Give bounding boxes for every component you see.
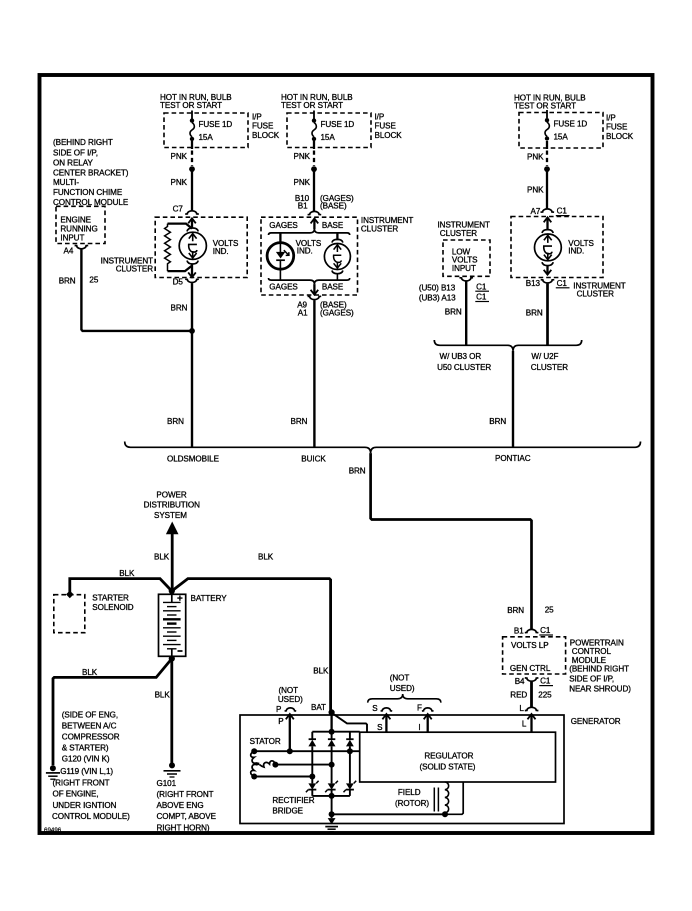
svg-text:C7: C7 xyxy=(173,204,184,213)
svg-text:(RIGHT FRONT: (RIGHT FRONT xyxy=(157,790,214,799)
powertrain control module box xyxy=(503,637,566,674)
svg-text:VOLTS LP: VOLTS LP xyxy=(511,641,549,650)
junction battery negative xyxy=(169,656,175,662)
I/P fuse block box (Oldsmobile) xyxy=(164,113,248,148)
svg-text:S: S xyxy=(372,704,378,713)
connector L (generator) xyxy=(519,704,538,729)
svg-text:FUSE: FUSE xyxy=(375,122,397,131)
svg-text:CENTER BRACKET): CENTER BRACKET) xyxy=(53,169,129,178)
svg-text:BRN: BRN xyxy=(171,303,188,312)
svg-text:CLUSTER: CLUSTER xyxy=(531,363,569,372)
svg-text:B1: B1 xyxy=(298,202,308,211)
wire stator phase 3 xyxy=(254,776,312,778)
chime module box: engine running input xyxy=(56,206,105,243)
svg-text:BLK: BLK xyxy=(155,691,171,700)
svg-text:C1: C1 xyxy=(540,677,551,686)
arrow to power distribution xyxy=(166,522,179,535)
wire PNK (Oldsmobile) xyxy=(191,169,193,211)
svg-text:OF ENGINE,: OF ENGINE, xyxy=(53,790,99,799)
wire to gauges lamp xyxy=(279,233,281,243)
svg-text:(BEHIND RIGHT: (BEHIND RIGHT xyxy=(569,664,629,673)
battery xyxy=(159,591,186,659)
svg-text:BRN: BRN xyxy=(507,606,524,615)
svg-text:BAT: BAT xyxy=(311,703,326,712)
gauge volts indicator (Buick base) xyxy=(324,239,350,280)
stator windings xyxy=(250,737,281,779)
wire stator phase 2 xyxy=(275,764,331,766)
svg-text:BRN: BRN xyxy=(167,417,184,426)
wire BLK battery to PDS xyxy=(171,533,174,591)
svg-text:(BEHIND RIGHT: (BEHIND RIGHT xyxy=(53,138,113,147)
junction ground/field xyxy=(329,811,335,817)
label I/P FUSE BLOCK (Buick) xyxy=(375,113,403,140)
svg-text:I/P: I/P xyxy=(252,113,262,122)
label powertrain control module xyxy=(569,639,631,694)
svg-text:C1: C1 xyxy=(557,279,568,288)
svg-text:(NOT: (NOT xyxy=(390,674,410,683)
svg-text:USED): USED) xyxy=(278,695,303,704)
wire BRN (Oldsmobile) xyxy=(191,283,193,447)
fuse 1D 15A (Buick) xyxy=(312,111,355,142)
instrument cluster box (Pontiac) xyxy=(511,217,603,278)
wire BLK battery to generator BAT xyxy=(172,579,331,713)
label ground G113/G120 xyxy=(52,711,130,821)
svg-text:BLOCK: BLOCK xyxy=(252,131,280,140)
svg-text:(U50) B13: (U50) B13 xyxy=(419,283,456,292)
rectifier bridge top rail xyxy=(312,731,359,733)
svg-text:GEN CTRL: GEN CTRL xyxy=(510,664,551,673)
wire BLK battery to G101 xyxy=(170,659,173,764)
svg-text:F: F xyxy=(417,703,422,712)
connector B1 C1 (PCM) xyxy=(514,626,553,635)
wire BRN ckt 25 chime to splice xyxy=(81,249,192,331)
junction BAT/rail xyxy=(329,729,335,735)
brace Pontiac cluster variants xyxy=(434,340,581,351)
merge bracket bottom xyxy=(269,278,350,284)
label multi-function chime control module xyxy=(53,138,129,207)
label HOT IN RUN (Pontiac feed) xyxy=(514,94,586,111)
svg-text:25: 25 xyxy=(89,275,98,284)
svg-text:W/ U2F: W/ U2F xyxy=(531,352,558,361)
junction splice (Pontiac PNK) xyxy=(544,166,550,172)
svg-text:PNK: PNK xyxy=(527,153,544,162)
svg-text:FIELD: FIELD xyxy=(398,788,421,797)
svg-text:NEAR SHROUD): NEAR SHROUD) xyxy=(569,684,631,693)
connector B4 C1 (PCM) xyxy=(515,677,553,686)
wire into split xyxy=(313,219,315,230)
svg-text:PNK: PNK xyxy=(527,186,544,195)
fuse 1D 15A (Oldsmobile) xyxy=(190,111,233,142)
wire gauge to D5 xyxy=(191,264,193,277)
svg-text:BLK: BLK xyxy=(258,552,274,561)
wire P to stator phase xyxy=(289,714,291,751)
brace S,F not used xyxy=(368,694,441,703)
svg-text:W/ UB3 OR: W/ UB3 OR xyxy=(440,352,482,361)
svg-text:TEST OR START: TEST OR START xyxy=(514,102,576,111)
low volts input box xyxy=(443,240,490,276)
wire BRN (Pontiac merged) xyxy=(512,351,514,448)
junction chime tap xyxy=(189,328,195,334)
svg-text:(RIGHT FRONT: (RIGHT FRONT xyxy=(53,779,110,788)
label I/P FUSE BLOCK (Pontiac) xyxy=(606,114,634,141)
I/P fuse block box (Buick) xyxy=(287,113,371,148)
svg-text:INPUT: INPUT xyxy=(452,264,476,273)
label I/P FUSE BLOCK (Oldsmobile) xyxy=(252,113,280,140)
wire S to regulator xyxy=(385,714,387,732)
connector A7 C1 (cluster Pontiac) xyxy=(531,207,570,223)
field rotor coil xyxy=(395,782,463,817)
terminal S (generator) xyxy=(372,704,392,732)
ground (generator case) xyxy=(325,818,338,832)
svg-text:SOLENOID: SOLENOID xyxy=(92,603,133,612)
svg-text:RUNNING: RUNNING xyxy=(60,225,97,234)
zener Z2 (rectifier col2) xyxy=(325,781,338,793)
svg-text:C1: C1 xyxy=(476,293,487,302)
rectifier bridge bottom rail xyxy=(312,795,350,797)
svg-text:L: L xyxy=(519,704,524,713)
wire L into regulator xyxy=(530,714,532,732)
ground G101 xyxy=(164,762,181,777)
instrument cluster box (Oldsmobile) xyxy=(155,217,247,277)
zener Z3 (rectifier col3) xyxy=(344,781,357,793)
svg-text:D5: D5 xyxy=(173,278,184,287)
svg-text:C1: C1 xyxy=(476,282,487,291)
svg-text:REGULATOR: REGULATOR xyxy=(424,752,473,761)
svg-text:BASE: BASE xyxy=(322,283,344,292)
svg-text:CLUSTER: CLUSTER xyxy=(361,225,399,234)
svg-text:SIDE OF I/P,: SIDE OF I/P, xyxy=(53,149,98,158)
generator box xyxy=(240,715,564,824)
svg-text:TEST OR START: TEST OR START xyxy=(160,101,222,110)
svg-text:225: 225 xyxy=(538,691,552,700)
svg-text:& STARTER): & STARTER) xyxy=(62,744,109,753)
svg-text:FUSE: FUSE xyxy=(606,123,628,132)
wire PNK fusible (Buick) dashed xyxy=(313,141,315,149)
svg-text:BLK: BLK xyxy=(119,569,135,578)
svg-text:(ROTOR): (ROTOR) xyxy=(395,799,429,808)
svg-text:(UB3) A13: (UB3) A13 xyxy=(419,293,456,302)
svg-text:POWER: POWER xyxy=(156,491,186,500)
svg-text:BRN: BRN xyxy=(445,307,462,316)
resistor (volts ind. parallel) xyxy=(165,224,192,272)
svg-text:C1: C1 xyxy=(557,207,568,216)
wire out of cluster xyxy=(313,284,315,295)
gauge volts indicator (Oldsmobile) xyxy=(179,228,239,264)
svg-text:(BASE): (BASE) xyxy=(320,202,347,211)
terminal P (generator) xyxy=(276,705,296,726)
svg-text:ENGINE: ENGINE xyxy=(60,215,91,224)
junction phase/column dots xyxy=(347,748,353,754)
svg-text:CONTROL: CONTROL xyxy=(572,647,612,656)
svg-text:ON RELAY: ON RELAY xyxy=(53,159,93,168)
svg-text:CLUSTER: CLUSTER xyxy=(440,229,478,238)
svg-text:A4: A4 xyxy=(64,247,74,256)
svg-text:GAGES: GAGES xyxy=(269,283,298,292)
gauge volts indicator (Pontiac) xyxy=(535,230,595,266)
svg-text:(GAGES): (GAGES) xyxy=(320,308,354,317)
svg-text:INPUT: INPUT xyxy=(60,234,84,243)
svg-text:PNK: PNK xyxy=(171,152,188,161)
svg-text:BATTERY: BATTERY xyxy=(191,594,228,603)
svg-text:ABOVE ENG: ABOVE ENG xyxy=(157,801,204,810)
svg-text:IND.: IND. xyxy=(297,247,313,256)
svg-text:15A: 15A xyxy=(321,133,336,142)
svg-text:L: L xyxy=(522,720,527,729)
svg-text:BETWEEN A/C: BETWEEN A/C xyxy=(62,721,117,730)
svg-text:BASE: BASE xyxy=(322,221,344,230)
connector A9/A1 (cluster Buick) xyxy=(311,290,319,295)
wire RED ckt 225 xyxy=(530,682,533,708)
wire rail to ground xyxy=(331,796,333,818)
wire F to regulator xyxy=(427,714,429,732)
svg-text:COMPRESSOR: COMPRESSOR xyxy=(62,732,120,741)
wire BLK battery to G113 xyxy=(53,659,172,766)
svg-text:RIGHT HORN): RIGHT HORN) xyxy=(157,823,210,832)
wire BRN to PCM xyxy=(371,453,532,629)
svg-text:15A: 15A xyxy=(554,133,569,142)
svg-text:P: P xyxy=(278,717,283,726)
fuse 1D 15A (Pontiac) xyxy=(545,110,588,142)
ground G113 xyxy=(46,765,60,779)
svg-text:I/P: I/P xyxy=(606,114,616,123)
svg-text:STATOR: STATOR xyxy=(250,737,281,746)
split bracket top xyxy=(269,229,350,235)
regulator box xyxy=(360,732,556,782)
svg-text:FUSE 1D: FUSE 1D xyxy=(321,120,355,129)
svg-text:SIDE OF I/P,: SIDE OF I/P, xyxy=(569,674,614,683)
junction rail/ground xyxy=(329,793,335,799)
svg-text:FUNCTION CHIME: FUNCTION CHIME xyxy=(53,188,123,197)
svg-text:BLOCK: BLOCK xyxy=(606,132,634,141)
svg-text:BLK: BLK xyxy=(313,666,329,675)
wire BLK battery to starter solenoid xyxy=(70,579,172,595)
wire PNK (Buick) xyxy=(313,169,315,211)
svg-text:C1: C1 xyxy=(540,626,551,635)
svg-text:CLUSTER: CLUSTER xyxy=(116,264,154,273)
connector B1/B10 (cluster Buick) xyxy=(308,211,322,214)
svg-text:BRN: BRN xyxy=(489,417,506,426)
wire into gauge xyxy=(546,217,548,229)
svg-text:(NOT: (NOT xyxy=(279,686,299,695)
wire PNK fusible (Oldsmobile) dashed xyxy=(191,141,193,149)
wire to base gauge xyxy=(336,233,338,240)
svg-text:PNK: PNK xyxy=(171,178,188,187)
svg-text:S: S xyxy=(377,723,383,732)
svg-text:A1: A1 xyxy=(298,308,308,317)
connector B13/A13 C1 (low volts input) xyxy=(459,278,473,281)
LED gauges indicator (Buick volts ind.) xyxy=(267,243,294,281)
diode D2 (rectifier col2) xyxy=(328,732,336,796)
svg-text:BLK: BLK xyxy=(82,668,98,677)
svg-text:69496: 69496 xyxy=(44,827,62,834)
label ground G101 xyxy=(157,779,217,832)
svg-text:(SIDE OF ENG,: (SIDE OF ENG, xyxy=(62,711,118,720)
svg-text:RED: RED xyxy=(510,691,527,700)
svg-text:I: I xyxy=(418,723,420,732)
svg-text:IND.: IND. xyxy=(568,247,584,256)
svg-text:TEST OR START: TEST OR START xyxy=(281,101,343,110)
svg-text:IND.: IND. xyxy=(213,247,229,256)
svg-text:BUICK: BUICK xyxy=(301,455,326,464)
junction splice (Buick PNK) xyxy=(311,166,317,172)
svg-text:B1: B1 xyxy=(514,627,524,636)
starter solenoid box xyxy=(54,595,85,633)
terminal F (generator) xyxy=(417,703,434,732)
svg-text:FUSE 1D: FUSE 1D xyxy=(554,120,588,129)
svg-text:PONTIAC: PONTIAC xyxy=(495,454,531,463)
zener Z1 (rectifier col1) xyxy=(306,781,319,793)
svg-text:CLUSTER: CLUSTER xyxy=(577,290,615,299)
wire ground to field coil xyxy=(332,813,445,815)
svg-text:GENERATOR: GENERATOR xyxy=(571,717,621,726)
svg-text:25: 25 xyxy=(545,605,554,614)
brace make merge (Oldsmobile/Buick/Pontiac) xyxy=(125,442,641,454)
wire BRN (Pontiac cluster) xyxy=(546,284,549,346)
wire gauge to B13 xyxy=(546,266,548,275)
svg-text:GAGES: GAGES xyxy=(269,221,298,230)
wire PNK fusible (Pontiac) dashed xyxy=(546,141,548,149)
svg-text:PNK: PNK xyxy=(294,152,311,161)
svg-text:U50 CLUSTER: U50 CLUSTER xyxy=(437,363,491,372)
svg-text:MULTI-: MULTI- xyxy=(53,178,79,187)
junction splice (Oldsmobile PNK) xyxy=(189,166,195,172)
wire into gauge xyxy=(191,218,193,228)
pin labels B10/B1 xyxy=(295,194,354,211)
svg-text:STARTER: STARTER xyxy=(92,593,129,602)
wire BAT to rectifier rail xyxy=(330,712,332,731)
wire PNK (Pontiac) xyxy=(546,169,548,209)
svg-text:BLOCK: BLOCK xyxy=(375,131,403,140)
label HOT IN RUN (Oldsmobile feed) xyxy=(160,93,232,110)
svg-text:G120 (VIN K): G120 (VIN K) xyxy=(62,755,110,764)
svg-text:G101: G101 xyxy=(157,779,177,788)
svg-text:BLK: BLK xyxy=(154,553,170,562)
svg-text:USED): USED) xyxy=(390,684,415,693)
svg-text:CONTROL MODULE): CONTROL MODULE) xyxy=(52,812,130,821)
svg-text:COMPT, ABOVE: COMPT, ABOVE xyxy=(157,812,217,821)
svg-text:BRN: BRN xyxy=(59,277,76,286)
label power distribution system xyxy=(144,491,200,521)
junction P/stator phase xyxy=(287,748,293,754)
svg-text:UNDER IGNTION: UNDER IGNTION xyxy=(53,801,117,810)
junction solenoid terminal (diamond) xyxy=(66,591,74,599)
connector B13 C1 (cluster Pontiac) xyxy=(526,270,570,288)
svg-text:B13: B13 xyxy=(526,279,541,288)
diode D1 (rectifier col1) xyxy=(308,732,316,796)
svg-text:I/P: I/P xyxy=(375,113,385,122)
instrument cluster box (Buick) xyxy=(261,217,358,295)
diode D3 (rectifier col3) xyxy=(346,732,354,796)
svg-text:OLDSMOBILE: OLDSMOBILE xyxy=(167,455,220,464)
svg-text:B4: B4 xyxy=(515,677,525,686)
wire BRN (Buick) xyxy=(313,300,315,447)
wire BAT to regulator xyxy=(332,713,367,732)
svg-text:(SOLID STATE): (SOLID STATE) xyxy=(420,763,476,772)
svg-text:15A: 15A xyxy=(199,133,214,142)
svg-text:P: P xyxy=(276,705,281,714)
svg-text:BRN: BRN xyxy=(349,466,366,475)
junction battery positive xyxy=(169,588,175,594)
svg-text:FUSE 1D: FUSE 1D xyxy=(199,120,233,129)
svg-text:A7: A7 xyxy=(531,207,541,216)
svg-text:RECTIFIER: RECTIFIER xyxy=(272,796,314,805)
wire BRN (low volts) xyxy=(465,282,467,346)
svg-text:BRIDGE: BRIDGE xyxy=(272,806,303,815)
svg-text:FUSE: FUSE xyxy=(252,122,274,131)
svg-text:DISTRIBUTION: DISTRIBUTION xyxy=(144,501,200,510)
svg-text:BRN: BRN xyxy=(526,308,543,317)
svg-text:G119 (VIN L,1): G119 (VIN L,1) xyxy=(60,767,113,776)
svg-text:BRN: BRN xyxy=(291,417,308,426)
svg-text:PNK: PNK xyxy=(294,178,311,187)
label HOT IN RUN (Buick feed) xyxy=(281,93,353,110)
svg-text:SYSTEM: SYSTEM xyxy=(154,511,187,520)
wire stator phase 1 to rectifier/regulator xyxy=(254,750,360,752)
I/P fuse block box (Pontiac) xyxy=(519,113,603,149)
